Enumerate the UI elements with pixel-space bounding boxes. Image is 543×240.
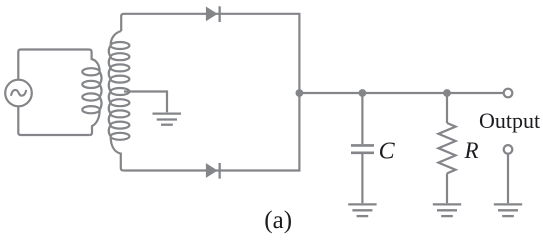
capacitor C plates — [351, 145, 374, 152]
wire lower terminal to ground — [507, 154, 509, 203]
wire top: secondary top to diode D1 to right rail — [121, 14, 299, 92]
wire resistor to ground — [446, 173, 448, 203]
wire capacitor to ground — [361, 154, 363, 203]
output terminal upper — [504, 89, 513, 98]
ground under C — [348, 204, 376, 216]
ground under R — [433, 204, 461, 216]
node junction C — [359, 89, 367, 97]
wire source loop — [18, 50, 89, 136]
resistor R zigzag — [438, 123, 455, 173]
wire bus — [299, 92, 503, 94]
output terminal lower — [504, 145, 513, 154]
diode D1 — [206, 7, 218, 22]
node junction R — [443, 89, 451, 97]
sine symbol — [11, 90, 26, 96]
wire bottom: secondary bottom to diode D2 to right rail — [123, 94, 299, 171]
transformer secondary winding — [109, 31, 130, 171]
wire resistor drop — [446, 93, 448, 123]
ground center tap — [153, 114, 182, 125]
ground under output — [494, 204, 522, 216]
wire capacitor drop — [361, 93, 363, 144]
svg-text:R: R — [464, 138, 479, 163]
wire center tap — [124, 92, 167, 113]
svg-text:C: C — [379, 138, 396, 164]
svg-text:(a): (a) — [264, 207, 292, 234]
transformer primary winding — [82, 50, 101, 136]
AC source VS — [5, 80, 32, 107]
diode D2 — [206, 163, 218, 178]
node junction rail — [296, 89, 304, 97]
svg-text:Output: Output — [479, 108, 540, 133]
